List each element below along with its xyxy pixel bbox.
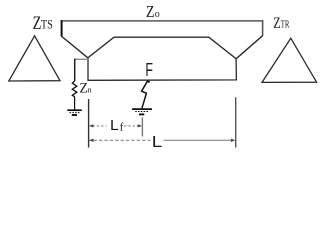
svg-text:f: f	[120, 120, 124, 134]
label Z_n	[79, 80, 92, 96]
wire left extension line	[88, 99, 90, 148]
wire Z_o top line	[61, 20, 263, 22]
ground (below Zn)	[67, 110, 82, 115]
transmission stub triangle right	[262, 38, 317, 82]
transmission stub triangle left	[9, 36, 60, 81]
dimension Lf line	[93, 125, 139, 127]
svg-text:TS: TS	[41, 17, 53, 31]
wire Lf tick	[141, 118, 143, 137]
wire right outer vertical	[262, 20, 264, 36]
label Z_o	[146, 2, 160, 21]
wire feed bolt at F	[142, 80, 148, 108]
wire right outer diagonal	[236, 36, 262, 59]
wire left outer diagonal	[61, 36, 88, 58]
label Z_TS	[33, 13, 53, 34]
svg-text:o: o	[155, 8, 160, 20]
svg-text:L: L	[110, 118, 119, 134]
svg-text:L: L	[152, 134, 163, 151]
wire Zn branch vertical	[74, 59, 76, 81]
node plate (trapezoid body)	[88, 37, 236, 80]
svg-text:TR: TR	[281, 19, 290, 31]
resistor Zn	[72, 81, 77, 97]
wire step horizontal to Zn branch	[75, 58, 88, 60]
svg-text:Z: Z	[273, 15, 280, 32]
svg-text:n: n	[88, 85, 93, 95]
wire resistor to ground	[74, 97, 76, 110]
svg-text:Z: Z	[146, 2, 155, 21]
label Z_TR	[273, 15, 290, 32]
svg-text:F: F	[145, 60, 153, 80]
ground (feed point)	[132, 109, 152, 114]
dimension L line	[94, 139, 232, 141]
wire left outer vertical	[61, 20, 63, 36]
wire right extension line	[235, 97, 237, 147]
label L_f	[110, 118, 123, 134]
